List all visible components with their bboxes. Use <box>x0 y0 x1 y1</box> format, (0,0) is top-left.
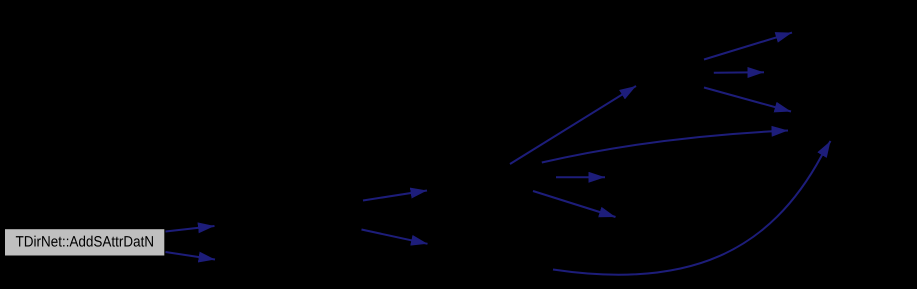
wire: edge from node E down-right to node F <box>704 88 791 112</box>
wire: edge from TDirNet::AddSAttrDatN to callee node B (lower) <box>166 252 216 260</box>
wire: edge from TDirNet::AddSAttrDatN to callee node A (upper) <box>166 226 215 232</box>
wire: edge from node E up-right <box>704 33 792 60</box>
wire: long bottom curved edge sweeping up to right-side node <box>553 141 831 275</box>
wire: edge from node A to node C <box>363 191 427 201</box>
wire: long gently-curved edge from node C to node F <box>542 131 788 163</box>
wire: short horizontal edge from node C <box>556 176 605 178</box>
wire: edge from node B to node D <box>362 230 428 244</box>
wire: edge from node C down-right <box>533 191 616 217</box>
node TDirNet::AddSAttrDatN (current function, grey box) <box>5 229 164 255</box>
wire: short horizontal edge from node E <box>714 71 764 74</box>
wire: edge from node C up-right to node E <box>510 86 636 164</box>
